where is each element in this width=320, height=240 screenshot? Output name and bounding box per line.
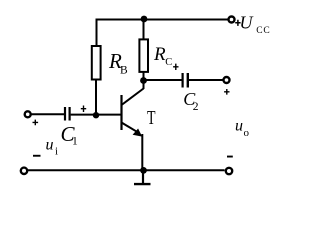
capacitor C1 bbox=[65, 107, 70, 121]
label RB bbox=[108, 49, 128, 77]
capacitor C2 bbox=[183, 73, 188, 88]
wire bottom rail bbox=[28, 169, 225, 171]
svg-text:R: R bbox=[153, 44, 166, 65]
node collector junction bbox=[140, 77, 147, 84]
label C2 bbox=[183, 89, 198, 113]
wire RC bottom stub bbox=[143, 73, 145, 81]
wire emitter vertical bbox=[141, 134, 143, 170]
label minus input bbox=[33, 155, 41, 157]
ground bbox=[134, 170, 151, 184]
terminal bottom left bbox=[21, 168, 27, 174]
wire top rail bbox=[97, 19, 228, 21]
resistor RB bbox=[92, 46, 101, 80]
svg-text:u: u bbox=[46, 137, 54, 154]
wire collector vertical bbox=[143, 76, 145, 89]
node top junction bbox=[141, 16, 148, 23]
wire collector node to C2 bbox=[144, 79, 182, 81]
node base junction bbox=[93, 112, 99, 118]
svg-text:2: 2 bbox=[193, 101, 199, 113]
wire RB branch from rail bbox=[96, 19, 98, 46]
terminal bottom right bbox=[226, 168, 232, 174]
svg-text:B: B bbox=[120, 65, 128, 77]
terminal +Ucc bbox=[229, 17, 235, 23]
label uo bbox=[235, 118, 250, 140]
label +Ucc bbox=[235, 13, 270, 36]
label RC bbox=[153, 44, 172, 68]
wire RC top stub bbox=[143, 19, 145, 39]
transistor T bbox=[122, 89, 144, 137]
wire RB bottom to base node bbox=[95, 80, 97, 115]
svg-text:U: U bbox=[240, 13, 254, 33]
resistor RC bbox=[139, 39, 148, 72]
label ui bbox=[46, 137, 59, 158]
svg-text:T: T bbox=[147, 107, 156, 129]
svg-text:u: u bbox=[235, 118, 243, 135]
node emitter ground junction bbox=[140, 167, 147, 174]
label + output bbox=[224, 89, 229, 95]
svg-text:CC: CC bbox=[256, 26, 270, 36]
terminal output bbox=[224, 77, 230, 83]
svg-text:1: 1 bbox=[72, 136, 78, 148]
wire base bbox=[71, 114, 121, 116]
label + of C2 bbox=[173, 64, 178, 70]
label C1 bbox=[61, 122, 79, 148]
wire input to C1 bbox=[31, 113, 64, 115]
label minus output bbox=[227, 156, 233, 158]
terminal input bbox=[25, 111, 31, 117]
svg-text:i: i bbox=[55, 146, 58, 158]
svg-text:C: C bbox=[165, 57, 172, 68]
label + of C1 bbox=[81, 106, 86, 113]
label + input bbox=[33, 120, 39, 126]
wire C2 to output bbox=[189, 79, 223, 81]
svg-text:o: o bbox=[244, 127, 250, 139]
